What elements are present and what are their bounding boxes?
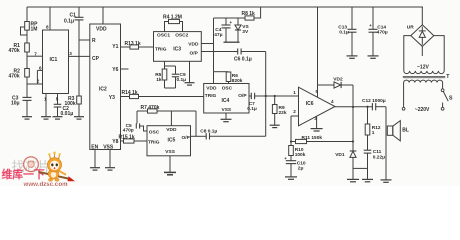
svg-text:www.dzsc.com: www.dzsc.com [23, 181, 69, 186]
svg-text:OSC: OSC [149, 129, 160, 135]
svg-text:22k: 22k [279, 110, 287, 116]
svg-text:0.1μ: 0.1μ [64, 19, 74, 25]
svg-text:+: + [369, 23, 372, 28]
op IC3 music chip box [154, 32, 202, 62]
wire: Y8 to R15 [121, 140, 124, 142]
wire: IC1 pin 1 to ground [45, 94, 47, 117]
svg-text:C6 0.1μ: C6 0.1μ [234, 57, 252, 63]
ground below C10 [285, 176, 297, 178]
resistor R13 1k [130, 45, 139, 49]
wire: IC3 VSS pin to ground [189, 61, 191, 82]
svg-text:Y1: Y1 [112, 44, 118, 50]
svg-text:2μ: 2μ [298, 165, 304, 171]
svg-text:O/P: O/P [182, 135, 191, 141]
svg-text:R: R [92, 38, 96, 44]
capacitor C9 0.1u [175, 66, 177, 74]
wire: bridge AC inputs to transformer secondary [404, 36, 411, 71]
svg-text:1M: 1M [31, 27, 38, 33]
resistor R7 470k feedback of IC5 [137, 110, 148, 112]
svg-text:0.1μ: 0.1μ [247, 106, 257, 112]
svg-text:1k: 1k [156, 77, 162, 83]
svg-text:10μ: 10μ [11, 100, 20, 106]
ground below C13 [347, 55, 358, 57]
ground below IC6 pin 3 [311, 128, 323, 130]
wire: R1-R2 node to IC1 pin 7 [26, 52, 28, 69]
wire: IC2 VSS pin to ground [109, 150, 111, 168]
potentiometer RP 1M [26, 7, 28, 22]
capacitor C7 0.1u [250, 93, 252, 99]
resistor R8 1k [245, 16, 254, 20]
wire: IC1 pin 3 output to IC2 CP [69, 55, 90, 57]
watermark mascot [39, 152, 76, 182]
svg-text:R14 1k: R14 1k [122, 90, 138, 96]
ground below R3 [74, 116, 84, 118]
capacitor C13 0.1u supply filter [351, 7, 353, 29]
svg-text:~12V: ~12V [417, 64, 429, 70]
svg-text:100k: 100k [295, 152, 306, 158]
svg-text:~220V: ~220V [415, 107, 430, 113]
wire: VD2 node down to feedback and VD1 [352, 85, 354, 151]
switch S on primary right [442, 83, 444, 89]
svg-text:1: 1 [372, 130, 375, 136]
bridge rectifier UR [421, 7, 423, 25]
svg-text:470p: 470p [123, 128, 134, 134]
svg-text:维库一下: 维库一下 [2, 167, 45, 181]
wire: IC4 VSS to ground [225, 113, 227, 119]
svg-text:CP: CP [92, 56, 100, 62]
resistor R14 1k [130, 94, 139, 98]
resistor R4 1.2M across OSC1-OSC2 [169, 19, 180, 23]
svg-text:IC2: IC2 [99, 87, 107, 93]
wire: Y1 to R13 [121, 46, 131, 48]
svg-text:R8 1k: R8 1k [242, 11, 256, 17]
capacitor C5 470p [135, 123, 137, 128]
wire: R14 to IC4 TRIG [139, 96, 204, 98]
zener diode VS 3V [237, 18, 239, 25]
svg-text:3: 3 [69, 51, 72, 56]
wire: mixing node vertical [265, 52, 267, 137]
wire: IC4 O/P to C7 [249, 95, 251, 97]
svg-text:8: 8 [46, 25, 49, 30]
svg-text:IC4: IC4 [222, 98, 230, 104]
ground below VD1 [347, 178, 359, 180]
svg-text:VDD: VDD [188, 41, 199, 47]
svg-text:470μ: 470μ [377, 30, 388, 36]
ground below IC4 [221, 118, 232, 120]
svg-text:TRIG: TRIG [205, 93, 217, 99]
resistor R15 1k [124, 139, 135, 143]
svg-text:5: 5 [56, 96, 59, 101]
capacitor C2 0.01u on IC1 pin 5 [57, 94, 59, 105]
svg-text:R4 1.2M: R4 1.2M [163, 14, 182, 20]
svg-text:Y3: Y3 [109, 95, 115, 101]
svg-text:R7 470k: R7 470k [141, 105, 160, 111]
wire: IC6 output pin 4 [335, 106, 372, 108]
junction dots [265, 95, 267, 97]
svg-text:+: + [284, 156, 287, 161]
svg-text:VD1: VD1 [335, 152, 345, 158]
svg-text:1: 1 [293, 90, 296, 95]
svg-text:4: 4 [331, 99, 334, 104]
svg-text:VSS: VSS [222, 107, 232, 113]
svg-text:47μ: 47μ [214, 32, 222, 38]
svg-text:470k: 470k [9, 48, 20, 54]
svg-text:C12 1000μ: C12 1000μ [362, 98, 386, 104]
wire: IC2 VDD pin to rail [102, 7, 104, 24]
op IC2 CD4017 counter box [90, 24, 121, 150]
wire: IC3 O/P to C6 [201, 51, 237, 53]
wire: IC5 O/P to C8 [191, 135, 207, 137]
ground below IC1 pin 1 [41, 116, 51, 118]
ground below IC3 [185, 82, 195, 84]
ground bar under C4 and VS [224, 41, 240, 43]
capacitor C12 1000u output coupling [371, 103, 373, 110]
capacitor C14 470u supply filter [372, 7, 374, 29]
wire: IC5 VSS to ground [169, 156, 171, 173]
wire: IC6 pin 2 input [291, 115, 299, 117]
resistor R1 470k [25, 43, 30, 52]
svg-text:VDD: VDD [96, 27, 107, 33]
ground below EN [90, 167, 100, 169]
resistor R5 1k [162, 69, 167, 80]
wire: Y6 stub [121, 68, 129, 70]
wire: R8 to top rail [254, 7, 261, 18]
svg-text:VDD: VDD [206, 85, 217, 91]
zobel capacitor C11 0.22u [367, 135, 369, 150]
ground below C14 [368, 55, 379, 57]
svg-text:7: 7 [34, 51, 37, 56]
resistor R3 100k [77, 96, 82, 104]
svg-text:R11 150k: R11 150k [302, 135, 323, 141]
ground below R9 [270, 124, 280, 126]
svg-text:BL: BL [402, 128, 409, 134]
svg-text:3V: 3V [242, 29, 249, 35]
capacitor C3 10u [23, 96, 32, 98]
wire: main VDD top rail [27, 6, 423, 8]
wire: Y3 to R14 [121, 96, 130, 98]
wire: IC6 pin 3 to ground [316, 116, 318, 128]
diode VD2 bootstrap [318, 84, 335, 86]
svg-text:R13 1k: R13 1k [125, 41, 141, 47]
wire: R2 bottom node to IC1 pin 2 and pin 6 [26, 77, 28, 97]
svg-text:TRIG: TRIG [148, 139, 160, 145]
wire: IC3 CV pin to R5/C9 [164, 61, 166, 69]
svg-text:0.1μ: 0.1μ [339, 30, 349, 36]
wire: primary left to terminal [403, 83, 405, 108]
capacitor C8 0.1u [205, 133, 207, 139]
op-amp IC6 power amplifier [299, 87, 336, 126]
svg-text:0.22μ: 0.22μ [373, 154, 385, 160]
svg-text:C8 0.1μ: C8 0.1μ [200, 129, 217, 135]
wire: output to speaker [385, 107, 387, 180]
svg-text:IC1: IC1 [50, 57, 58, 63]
op IC5 music chip box [147, 126, 191, 156]
wire: reset node to IC2 R pin [79, 39, 90, 41]
wire: RP to R1 [26, 30, 28, 43]
ground below speaker line [381, 179, 392, 181]
svg-text:OSC2: OSC2 [175, 33, 188, 39]
wire: IC2 EN pin to ground [94, 150, 96, 168]
wire: C6 to mixing node [241, 51, 266, 53]
resistor R6 820k [214, 71, 229, 73]
wire: IC6 pin 5 supply from rail [317, 7, 319, 97]
wire: R13 to IC3 TRIG [139, 46, 154, 48]
svg-text:S: S [449, 95, 453, 101]
capacitor C1 0.1u reset [78, 7, 80, 17]
diode VD1 protection [350, 150, 357, 152]
svg-text:VSS: VSS [103, 145, 114, 151]
svg-text:+: + [230, 20, 233, 25]
svg-text:VSS: VSS [165, 149, 175, 155]
wire: R7 right to O/P wire [195, 111, 197, 136]
zobel resistor R12 1 [367, 107, 369, 124]
wire: C8 to mixing node [210, 135, 266, 137]
wire: bridge bottom stub [421, 46, 423, 56]
svg-text:6: 6 [39, 65, 42, 70]
wire: R5/C9 bottom bar [165, 87, 176, 89]
wire: IC4 VDD pin stub [213, 72, 215, 84]
svg-text:VD2: VD2 [333, 77, 343, 83]
resistor R11 150k feedback [291, 141, 296, 143]
capacitor C4 47u [225, 18, 227, 25]
svg-text:Y6: Y6 [112, 67, 118, 73]
wire: VD1 chain rung to C11 chain [353, 167, 368, 169]
wire: C7 to amp input node and IC6 pin 1 [255, 95, 299, 97]
wire: IC5 VDD pin to R7 wire [170, 111, 172, 126]
watermark red stamp circle [24, 157, 39, 172]
resistor R9 22k [274, 96, 276, 105]
svg-text:OSC1: OSC1 [157, 33, 170, 39]
svg-text:2: 2 [293, 109, 296, 114]
svg-text:470k: 470k [9, 74, 20, 80]
svg-text:IC5: IC5 [168, 137, 176, 143]
ground below C2 [53, 116, 63, 118]
svg-text:C7: C7 [249, 101, 255, 107]
ground below C11 [362, 178, 373, 180]
resistor R10 100k [289, 146, 294, 156]
svg-text:UR: UR [407, 25, 414, 31]
svg-text:VDD: VDD [166, 127, 177, 133]
svg-text:IC6: IC6 [306, 101, 314, 107]
wire: R15 to IC5 TRIG [134, 140, 147, 142]
svg-text:100k: 100k [65, 101, 76, 107]
transformer T [404, 71, 444, 74]
wire: IC3 VDD to 3V rail [201, 43, 213, 45]
op IC1 555 timer box [43, 30, 69, 94]
speaker BL [387, 126, 393, 135]
svg-text:R15 1k: R15 1k [119, 135, 135, 141]
svg-text:1: 1 [44, 96, 47, 101]
capacitor C6 0.1u [237, 49, 239, 55]
svg-text:O/P: O/P [238, 93, 247, 99]
resistor R2 470k [25, 69, 30, 78]
wire: 3V sub-rail [214, 17, 246, 19]
ground below C3 [22, 116, 32, 118]
capacitor C10 2u [290, 156, 292, 161]
svg-text:IC3: IC3 [173, 47, 181, 53]
ground below IC5 [164, 171, 176, 173]
wire: IC1 pin 8 to rail [49, 7, 51, 30]
op IC4 music chip box [204, 84, 249, 114]
ground below VSS [105, 167, 115, 169]
svg-text:TRIG: TRIG [155, 47, 167, 53]
svg-text:C11: C11 [373, 149, 382, 155]
wire: IC6 pin2/R10 node [290, 116, 292, 146]
svg-text:OSC: OSC [222, 85, 233, 91]
svg-text:O/P: O/P [190, 51, 199, 57]
